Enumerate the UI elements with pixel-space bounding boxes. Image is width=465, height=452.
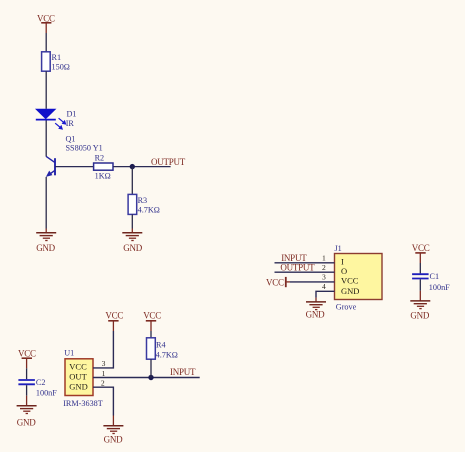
power port VCC (above R4) [143, 311, 161, 331]
svg-text:3: 3 [322, 272, 326, 281]
power port VCC (above C1) [412, 243, 430, 263]
svg-text:GND: GND [36, 243, 55, 253]
connector J1 [335, 244, 383, 300]
wire C2 to GND [26, 385, 28, 396]
wire J1 pin2 (OUTPUT) [275, 271, 335, 273]
wire U1 pin3 to VCC [93, 331, 113, 368]
wire R1 to D1 [45, 71, 47, 109]
svg-text:VCC: VCC [143, 311, 161, 321]
wire J1 pin4 to GND [316, 291, 335, 297]
svg-text:Grove: Grove [336, 303, 357, 312]
svg-text:VCC: VCC [412, 243, 430, 253]
LED D1 [35, 109, 77, 130]
wire R2 to OUTPUT [113, 166, 171, 168]
svg-text:GND: GND [123, 243, 142, 253]
svg-text:Q1: Q1 [66, 135, 76, 144]
svg-text:VCC: VCC [341, 276, 359, 286]
svg-text:OUTPUT: OUTPUT [280, 263, 315, 273]
capacitor C2 [18, 378, 57, 397]
svg-text:R3: R3 [138, 196, 148, 205]
svg-text:J1: J1 [335, 244, 342, 253]
resistor R2 [94, 154, 113, 181]
svg-text:OUT: OUT [69, 372, 87, 382]
svg-text:R2: R2 [95, 154, 105, 163]
wire VCC to R4 [150, 331, 152, 338]
wire U1 pin1 (OUT) to INPUT [93, 377, 200, 379]
power port VCC (left of J1) [266, 277, 290, 287]
svg-text:3: 3 [102, 359, 106, 368]
svg-text:VCC: VCC [18, 349, 36, 359]
ground (under C2) [17, 396, 37, 428]
ground (under Q1) [36, 229, 56, 253]
wire J1 pin3 to VCC [290, 281, 335, 283]
transistor Q1 [46, 135, 103, 177]
wire D1 to Q1 collector [45, 120, 47, 156]
svg-text:SS8050 Y1: SS8050 Y1 [66, 144, 103, 153]
wire Q1 emitter to GND [45, 177, 47, 229]
svg-text:1: 1 [322, 254, 326, 263]
svg-text:2: 2 [101, 378, 105, 387]
resistor R4 [147, 338, 178, 360]
wire VCC to C1 [419, 263, 421, 273]
wire Q1 base to R2 [55, 166, 94, 168]
junction (R4 / OUT node) [148, 375, 153, 380]
wire U1 pin2 to GND [93, 387, 113, 415]
capacitor C1 [412, 272, 450, 292]
svg-text:U1: U1 [64, 349, 74, 358]
power port VCC (top left) [37, 13, 55, 33]
svg-text:4.7KΩ: 4.7KΩ [138, 206, 160, 215]
ground (under U1 pin2) [103, 416, 123, 445]
svg-text:100nF: 100nF [429, 283, 450, 292]
svg-text:1: 1 [102, 369, 106, 378]
IC U1 [63, 349, 103, 408]
svg-text:INPUT: INPUT [170, 367, 196, 377]
svg-text:150Ω: 150Ω [52, 62, 70, 71]
svg-text:GND: GND [104, 435, 123, 445]
svg-text:GND: GND [410, 310, 429, 320]
wire junction to R3 [131, 167, 133, 195]
ground (under R3) [122, 229, 142, 253]
ground (under J1 pin4) [306, 298, 326, 320]
svg-text:OUTPUT: OUTPUT [151, 157, 186, 167]
svg-text:GND: GND [17, 418, 36, 428]
wire R3 to GND [131, 214, 133, 228]
svg-text:2: 2 [322, 263, 326, 272]
svg-text:GND: GND [306, 310, 325, 320]
wire C1 to GND [419, 279, 421, 290]
svg-text:VCC: VCC [266, 277, 284, 287]
wire J1 pin1 (INPUT) [275, 262, 335, 264]
svg-text:IRM-3638T: IRM-3638T [63, 399, 103, 408]
junction (R2 / R3 / OUTPUT node) [130, 164, 135, 169]
wire VCC to C2 [26, 368, 28, 379]
svg-text:VCC: VCC [69, 362, 87, 372]
svg-text:4: 4 [322, 282, 326, 291]
ground (under C1) [410, 291, 430, 321]
svg-text:4.7KΩ: 4.7KΩ [156, 350, 178, 359]
svg-text:C2: C2 [36, 378, 46, 387]
wire R4 to junction [150, 359, 152, 377]
svg-text:O: O [341, 266, 347, 276]
svg-text:GND: GND [341, 286, 359, 296]
power port VCC (above U1) [105, 311, 123, 331]
svg-text:1KΩ: 1KΩ [95, 171, 111, 180]
resistor R3 [128, 194, 160, 214]
power port VCC (above C2) [18, 349, 36, 369]
svg-text:C1: C1 [430, 272, 440, 281]
svg-text:R4: R4 [156, 341, 166, 350]
resistor R1 [42, 52, 70, 72]
svg-text:IR: IR [66, 119, 75, 128]
svg-text:VCC: VCC [105, 311, 123, 321]
wire VCC to R1 [45, 33, 47, 52]
svg-text:D1: D1 [67, 110, 77, 119]
svg-text:100nF: 100nF [36, 388, 57, 397]
svg-text:GND: GND [69, 381, 87, 391]
svg-text:R1: R1 [52, 53, 62, 62]
svg-text:VCC: VCC [37, 13, 55, 23]
